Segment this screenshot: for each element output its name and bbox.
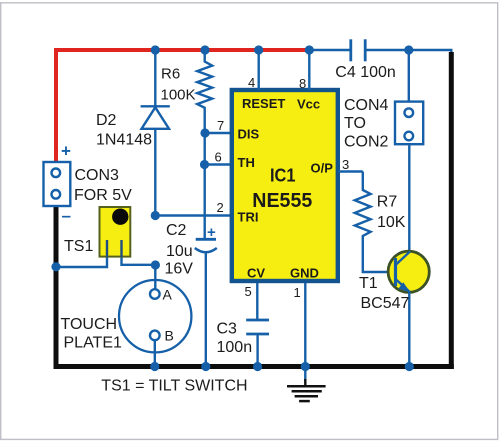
capacitor C3 — [246, 319, 269, 322]
svg-text:TS1: TS1 — [64, 238, 93, 255]
resistor R6 — [197, 50, 212, 239]
wire: pin5 stub — [256, 283, 258, 320]
wire: pin2 TRI line — [155, 214, 231, 216]
resistor R7 — [355, 172, 396, 273]
svg-text:NE555: NE555 — [252, 190, 312, 212]
connector CON3 — [44, 162, 71, 206]
svg-text:GND: GND — [290, 266, 319, 281]
terminal A — [150, 289, 160, 299]
svg-text:R6: R6 — [161, 66, 180, 83]
capacitor C4 — [349, 39, 352, 61]
svg-text:B: B — [165, 328, 174, 344]
svg-text:100K: 100K — [161, 87, 196, 104]
diode D2 — [154, 50, 156, 106]
svg-text:2: 2 — [217, 200, 224, 215]
wire: TS1 right leg to touch-plate node — [122, 240, 156, 265]
wire: bottom black ground rail — [54, 364, 454, 369]
touch plate circle — [119, 280, 191, 352]
svg-text:DIS: DIS — [238, 127, 260, 142]
node: C3 at rail — [253, 362, 262, 371]
svg-text:+: + — [61, 142, 71, 161]
transistor T1 — [388, 251, 429, 292]
node: pin8 top — [305, 45, 314, 54]
svg-text:IC1: IC1 — [270, 166, 296, 186]
node: emitter at rail — [405, 362, 414, 371]
svg-text:CV: CV — [247, 266, 265, 281]
svg-text:Vcc: Vcc — [297, 97, 320, 112]
svg-text:A: A — [163, 287, 173, 303]
svg-text:D2: D2 — [96, 112, 117, 129]
svg-text:8: 8 — [299, 76, 306, 91]
wire: pin4 stub — [258, 50, 260, 90]
svg-text:CON2: CON2 — [344, 134, 389, 151]
wire: node to plate A — [154, 265, 156, 290]
node: C2 at rail — [201, 362, 210, 371]
ground symbol — [304, 367, 306, 382]
svg-text:TO: TO — [344, 115, 366, 132]
node: pin4 top — [254, 45, 263, 54]
wire: pin6 TH stub — [205, 163, 232, 165]
TS1 left leg — [106, 240, 108, 257]
svg-text:C3: C3 — [217, 321, 238, 338]
node: CON4 top — [404, 45, 413, 54]
node: touch plate top junction — [151, 260, 160, 269]
svg-text:CON4: CON4 — [344, 97, 389, 114]
svg-text:100n: 100n — [217, 339, 253, 356]
svg-text:C4 100n: C4 100n — [335, 64, 396, 81]
node: pin2/D2 junction — [151, 211, 160, 220]
svg-text:–: – — [62, 206, 71, 225]
svg-text:RESET: RESET — [242, 96, 285, 111]
svg-text:4: 4 — [248, 75, 255, 90]
svg-text:TS1 = TILT SWITCH: TS1 = TILT SWITCH — [101, 378, 247, 395]
wire: left black rail below CON3 — [54, 206, 59, 369]
wire: blue top rail from C4 right plate to right corner — [365, 50, 451, 54]
svg-text:PLATE1: PLATE1 — [64, 335, 123, 352]
wire: pin8 stub — [308, 50, 310, 90]
terminal B — [150, 331, 160, 341]
wire: pin1 GND stub — [304, 283, 306, 364]
wire: red V+ rail from CON3 up and across top — [56, 50, 309, 163]
capacitor C2 — [196, 238, 216, 241]
wire: top rail to CON4 — [408, 50, 410, 101]
connector CON4 — [395, 102, 423, 145]
svg-text:6: 6 — [215, 150, 222, 165]
svg-text:1N4148: 1N4148 — [96, 132, 152, 149]
svg-text:BC547: BC547 — [361, 295, 410, 312]
wire: ground link y=266 left segment — [56, 240, 107, 267]
svg-text:FOR 5V: FOR 5V — [74, 187, 132, 204]
svg-text:3: 3 — [342, 157, 349, 172]
svg-text:7: 7 — [217, 118, 224, 133]
svg-text:C2: C2 — [166, 222, 187, 239]
node: pin7 junction — [200, 128, 209, 137]
svg-text:10u: 10u — [166, 243, 193, 260]
svg-text:5: 5 — [245, 284, 252, 299]
wire: blue top rail right of pin8 junction to C4 left plate — [309, 49, 351, 51]
svg-text:16V: 16V — [165, 261, 194, 278]
svg-text:1: 1 — [294, 285, 301, 300]
node: R6 top — [200, 45, 209, 54]
svg-text:10K: 10K — [377, 214, 406, 231]
tilt switch TS1 — [100, 207, 131, 257]
svg-text:CON3: CON3 — [75, 167, 120, 184]
IC IC1 NE555 — [232, 90, 338, 281]
node: plate B at rail — [150, 362, 159, 371]
wire: pin3 O/P to R7 — [338, 170, 363, 172]
TS1 right leg — [120, 240, 122, 257]
wire: plate B to ground rail — [154, 340, 156, 364]
wire: CON4 to collector — [408, 145, 410, 252]
svg-text:R7: R7 — [377, 194, 398, 211]
node: CON3 minus junction — [51, 262, 60, 271]
svg-text:+: + — [207, 224, 216, 241]
wire: right black rail — [449, 52, 454, 369]
node: D2 top — [151, 45, 160, 54]
svg-text:O/P: O/P — [311, 161, 334, 176]
wire: pin7 DIS stub — [205, 132, 232, 134]
wire: emitter to ground rail — [408, 292, 410, 365]
node: GND pin at rail — [301, 362, 310, 371]
svg-text:TOUCH: TOUCH — [61, 316, 118, 333]
node: pin6 junction — [200, 160, 209, 169]
svg-text:TH: TH — [238, 155, 255, 170]
svg-text:T1: T1 — [359, 275, 378, 292]
